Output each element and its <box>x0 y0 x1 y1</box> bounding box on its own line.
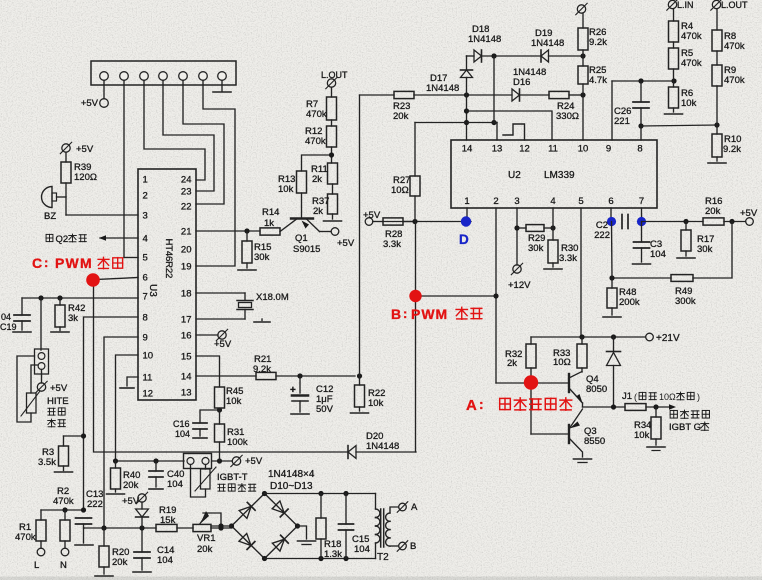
svg-text:1N4148: 1N4148 <box>426 83 459 94</box>
svg-text:470k: 470k <box>15 532 36 543</box>
svg-text:10k: 10k <box>681 98 697 109</box>
svg-text:3: 3 <box>514 196 519 207</box>
svg-text:13: 13 <box>492 144 503 155</box>
svg-text:19: 19 <box>181 262 192 273</box>
svg-text:104: 104 <box>157 555 173 566</box>
svg-text:470k: 470k <box>724 41 745 52</box>
svg-text:470k: 470k <box>306 109 327 120</box>
svg-text:): ) <box>697 392 700 402</box>
svg-text:222: 222 <box>87 499 103 510</box>
svg-text:2k: 2k <box>507 358 517 369</box>
svg-text:10Ω: 10Ω <box>553 357 571 368</box>
svg-text:20k: 20k <box>705 206 721 217</box>
svg-text:8550: 8550 <box>584 436 605 447</box>
svg-text:7: 7 <box>639 196 644 207</box>
svg-text:100k: 100k <box>227 437 248 448</box>
svg-text:3.3k: 3.3k <box>383 239 401 250</box>
svg-text:+5V: +5V <box>363 210 381 221</box>
svg-text:+5V: +5V <box>245 456 263 467</box>
svg-text:VR1: VR1 <box>197 533 215 544</box>
svg-text:6: 6 <box>143 273 148 284</box>
svg-text:1N4148: 1N4148 <box>468 34 501 45</box>
svg-text:104: 104 <box>354 544 370 555</box>
svg-text:2: 2 <box>493 196 498 207</box>
svg-text:D16: D16 <box>513 77 530 88</box>
svg-text:C: C <box>32 255 42 271</box>
svg-text:2: 2 <box>143 191 148 202</box>
svg-text:15k: 15k <box>160 515 176 526</box>
svg-text:23: 23 <box>181 187 192 198</box>
svg-text:2k: 2k <box>312 174 322 185</box>
svg-text:470k: 470k <box>53 496 74 507</box>
svg-text:20k: 20k <box>197 544 213 555</box>
svg-text:HITE: HITE <box>47 396 69 407</box>
svg-text:470k: 470k <box>681 58 702 69</box>
svg-text:14: 14 <box>462 144 473 155</box>
svg-text:PWM: PWM <box>55 255 93 271</box>
svg-text:8: 8 <box>143 313 148 324</box>
svg-text:+5V: +5V <box>214 339 232 350</box>
svg-text:A: A <box>466 397 477 414</box>
svg-text:D: D <box>459 232 469 247</box>
svg-text:4.7k: 4.7k <box>589 75 607 86</box>
svg-text:J1: J1 <box>622 391 632 402</box>
svg-text:8: 8 <box>637 144 642 155</box>
svg-text:10k: 10k <box>368 398 384 409</box>
svg-text:10: 10 <box>578 144 589 155</box>
svg-text::: : <box>44 255 48 270</box>
svg-text:10Ω: 10Ω <box>391 185 409 196</box>
svg-text:+5V: +5V <box>76 144 94 155</box>
svg-text:9.2k: 9.2k <box>253 364 271 375</box>
svg-text:PWM: PWM <box>411 306 448 322</box>
svg-text:20k: 20k <box>123 480 139 491</box>
svg-text:S9015: S9015 <box>293 244 320 255</box>
svg-text:22: 22 <box>181 202 192 213</box>
svg-text:470k: 470k <box>305 136 326 147</box>
svg-text:3.3k: 3.3k <box>559 253 577 264</box>
svg-text:1N4148: 1N4148 <box>531 38 564 49</box>
svg-text:30k: 30k <box>528 243 544 254</box>
svg-text::: : <box>403 306 407 321</box>
svg-text:24: 24 <box>181 175 192 186</box>
svg-text:3k: 3k <box>68 313 78 324</box>
svg-text:10k: 10k <box>226 396 242 407</box>
svg-text:1.3k: 1.3k <box>324 549 342 560</box>
svg-text:470k: 470k <box>724 75 745 86</box>
svg-text:IGBT-T: IGBT-T <box>217 472 248 483</box>
svg-text:L.OUT: L.OUT <box>721 0 748 10</box>
svg-text:U2: U2 <box>508 170 521 181</box>
svg-text:1N4148: 1N4148 <box>366 441 399 452</box>
svg-text:17: 17 <box>181 315 192 326</box>
svg-text:6: 6 <box>608 196 613 207</box>
svg-text:9: 9 <box>143 333 148 344</box>
svg-text:B: B <box>410 541 416 552</box>
svg-text:+5V: +5V <box>337 238 355 249</box>
svg-text:5: 5 <box>143 253 148 264</box>
svg-text:200k: 200k <box>619 297 640 308</box>
svg-text:A: A <box>411 502 418 513</box>
svg-text:20k: 20k <box>112 557 128 568</box>
svg-text:9: 9 <box>606 144 611 155</box>
svg-text:222: 222 <box>594 230 610 241</box>
svg-text:1: 1 <box>464 196 469 207</box>
svg-text:11: 11 <box>143 373 153 384</box>
svg-text:12: 12 <box>143 389 154 400</box>
svg-text:C19: C19 <box>0 322 17 332</box>
svg-text:104: 104 <box>650 249 666 260</box>
svg-text:16: 16 <box>181 331 192 342</box>
svg-text:21: 21 <box>181 227 192 238</box>
svg-text:14: 14 <box>181 372 192 383</box>
svg-text:+5V: +5V <box>81 98 99 109</box>
svg-text:5: 5 <box>578 196 583 207</box>
svg-text:10: 10 <box>143 351 154 362</box>
svg-text:+12V: +12V <box>508 280 531 291</box>
svg-text:T2: T2 <box>377 552 389 563</box>
svg-text:N: N <box>60 560 67 571</box>
svg-text:221: 221 <box>614 116 630 127</box>
svg-text:10k: 10k <box>634 430 650 441</box>
svg-text:12: 12 <box>519 144 530 155</box>
svg-text:2k: 2k <box>313 206 323 217</box>
svg-text:D10~D13: D10~D13 <box>270 481 313 492</box>
svg-text:18: 18 <box>181 289 192 300</box>
svg-text:L.OUT: L.OUT <box>321 70 348 80</box>
svg-text:120Ω: 120Ω <box>74 172 97 183</box>
svg-text:9.2k: 9.2k <box>589 37 607 48</box>
svg-text:300k: 300k <box>675 296 696 307</box>
svg-text:+21V: +21V <box>656 333 680 344</box>
svg-text:13: 13 <box>181 388 192 399</box>
svg-text:Q2: Q2 <box>56 234 69 245</box>
svg-text:4: 4 <box>143 234 148 245</box>
svg-text:8050: 8050 <box>586 384 607 395</box>
svg-text:330Ω: 330Ω <box>556 111 579 122</box>
svg-text:Q1: Q1 <box>295 233 308 244</box>
svg-text:BZ: BZ <box>44 211 56 222</box>
svg-text:+5V: +5V <box>50 383 68 394</box>
svg-text:104: 104 <box>167 479 183 490</box>
svg-text:30k: 30k <box>697 244 713 255</box>
svg-text:L: L <box>34 560 39 571</box>
svg-text:1N4148×4: 1N4148×4 <box>268 469 315 480</box>
svg-text:1: 1 <box>143 175 148 186</box>
svg-text:B: B <box>391 306 401 322</box>
svg-text:R14: R14 <box>262 207 279 218</box>
svg-text:(: ( <box>634 392 637 402</box>
svg-text:04: 04 <box>1 312 11 322</box>
svg-text:+5V: +5V <box>122 496 140 507</box>
svg-text:IGBT G: IGBT G <box>669 422 701 433</box>
svg-text:10k: 10k <box>278 184 294 195</box>
svg-text:50V: 50V <box>316 404 334 415</box>
svg-text:C16: C16 <box>173 419 190 429</box>
svg-text:11: 11 <box>548 144 558 155</box>
svg-text:9.2k: 9.2k <box>723 144 741 155</box>
svg-text:HT46R22: HT46R22 <box>163 239 174 279</box>
svg-text:30k: 30k <box>254 252 270 263</box>
svg-text:U3: U3 <box>147 284 158 297</box>
svg-text:10Ω: 10Ω <box>659 392 676 402</box>
svg-text:LM339: LM339 <box>544 170 575 181</box>
svg-text:20k: 20k <box>393 111 409 122</box>
svg-text::: : <box>479 396 484 412</box>
svg-text:470k: 470k <box>681 31 702 42</box>
svg-text:3.5k: 3.5k <box>38 457 56 468</box>
svg-text:X18.0M: X18.0M <box>256 292 289 303</box>
svg-text:104: 104 <box>175 429 190 439</box>
svg-text:4: 4 <box>550 196 555 207</box>
svg-text:L.IN: L.IN <box>677 0 694 10</box>
svg-text:20: 20 <box>181 245 192 256</box>
svg-text:1k: 1k <box>264 218 274 229</box>
svg-text:3: 3 <box>143 211 148 222</box>
svg-text:+5V: +5V <box>740 208 758 219</box>
svg-text:15: 15 <box>181 352 192 363</box>
